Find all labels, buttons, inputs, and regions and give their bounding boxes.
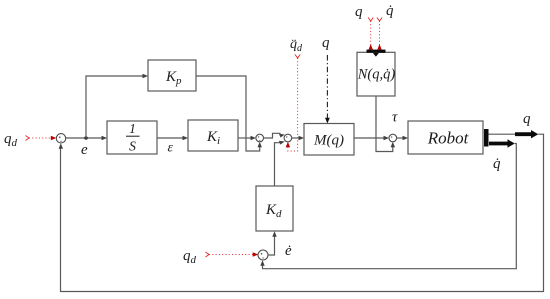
svg-text:q: q [355, 4, 363, 20]
svg-text:q̇: q̇ [493, 156, 501, 172]
N block top black bar [367, 50, 386, 53]
fat arrow q output [515, 130, 538, 138]
summing junction S2 [256, 134, 264, 142]
wire Kp output to summer S2 bottom [196, 76, 260, 151]
block Ki [188, 120, 238, 151]
svg-text:e: e [81, 142, 88, 158]
wire integrator to Ki [157, 137, 184, 139]
svg-text:q: q [523, 111, 531, 127]
block integrator 1/S [107, 121, 157, 154]
wire Kd output up into S3 lower-left [275, 143, 281, 186]
block M(q) [304, 124, 354, 156]
svg-text:ε: ε [168, 141, 174, 156]
wire red dotted q_d into summer S1 [26, 136, 52, 141]
wire S3 to M(q) [292, 137, 300, 139]
svg-text:ė: ė [285, 243, 292, 259]
summing junction S3 [284, 134, 292, 142]
wire S4 to Robot [397, 137, 404, 139]
svg-text:S: S [129, 139, 136, 154]
svg-text:1: 1 [129, 121, 136, 136]
Robot output black bar [484, 129, 489, 147]
block N(q,qdot) [357, 52, 396, 96]
wire N output down and into S4 bottom [376, 96, 393, 152]
block Kd [256, 186, 293, 231]
summing junction S4 [389, 134, 397, 142]
svg-text:Robot: Robot [427, 129, 470, 148]
node e junction dot [84, 136, 88, 140]
wire red dotted qdd_d into S3 bottom [288, 55, 300, 152]
svg-text:q: q [322, 35, 330, 51]
svg-text:M(q): M(q) [313, 133, 344, 149]
wire red dotted q_d into summer S5 [206, 252, 254, 257]
fat arrow qdot output [489, 139, 515, 147]
svg-text:τ: τ [392, 110, 398, 126]
svg-text:N(q,q̇): N(q,q̇) [357, 67, 396, 83]
wire S2 to summer S3 (jog up) [264, 133, 281, 138]
wire thin from Robot bar to fat arrow q [489, 133, 516, 135]
block Robot [408, 121, 483, 154]
N block small triangle below bar [373, 53, 379, 57]
svg-text:q̇: q̇ [386, 3, 394, 19]
wire branch up from e to Kp [86, 76, 144, 138]
wire Ki to summer S2 [238, 137, 252, 139]
wire q feedback (right, down, bottom, up into S1) [61, 134, 544, 291]
summing junction S1 [56, 134, 65, 143]
wire black dash-dot q into M(q) top [326, 55, 328, 119]
wire qdot feedback (right, down, bottom, up into S5) [263, 144, 517, 269]
wire M(q) to S4 [354, 137, 385, 139]
wire red dotted q into N bar [368, 18, 373, 46]
wire red dotted qdot into N bar [377, 18, 382, 46]
block Kp [148, 60, 196, 91]
wire S1 to integrator with node e junction dot [66, 137, 103, 139]
wire S5 up into Kd bottom (edot) [268, 236, 275, 256]
summing junction S5 [258, 250, 268, 260]
